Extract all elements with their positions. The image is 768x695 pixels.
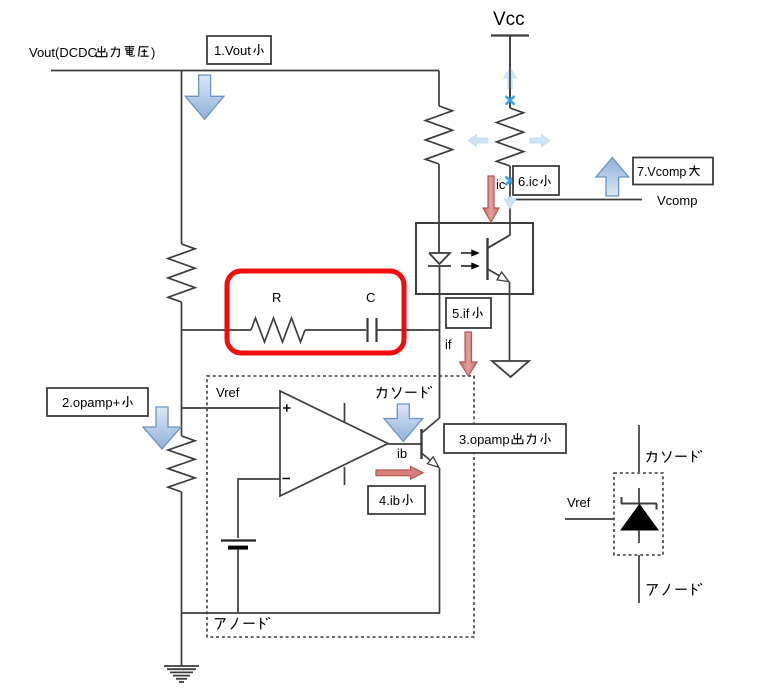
annotation box 6.ic小 <box>513 166 559 195</box>
annotation box 5.if小 <box>446 298 491 328</box>
blue arrow 1 (Vout down) <box>185 75 224 119</box>
TL431 anode inner lead <box>638 530 640 543</box>
svg-text:7.Vcomp: 7.Vcomp <box>637 165 686 179</box>
capacitor C (compensation) <box>368 318 377 342</box>
wire: emitter to ground <box>509 282 511 361</box>
svg-text:Vout(DCDC: Vout(DCDC <box>29 45 97 60</box>
TL431 reference bar <box>621 497 657 510</box>
ground (earth, hatched) <box>164 666 199 682</box>
red highlight rounded rect <box>227 271 404 353</box>
svg-text:Vref: Vref <box>216 385 240 400</box>
wire: anode lead below <box>638 555 640 603</box>
TL431 cathode inner lead <box>638 488 640 503</box>
red arrow if (down) <box>460 332 477 376</box>
wire: Q1 emitter down <box>439 468 441 613</box>
opto emitter arrowhead <box>497 272 509 282</box>
resistor R2 (divider lower) <box>168 436 195 492</box>
blue arrow 3 (cathode down) <box>384 404 423 442</box>
op-amp U1 <box>280 391 388 496</box>
svg-text:Vcc: Vcc <box>493 9 525 30</box>
wire: Vref to opamp + <box>182 407 281 409</box>
opto phototransistor <box>486 238 488 280</box>
wire: Vcomp rail <box>510 199 642 201</box>
svg-text:4.ib: 4.ib <box>379 493 400 508</box>
label anode right (アノード) <box>647 583 702 595</box>
resistor R3 (LED series) <box>426 106 453 164</box>
dashed box TL431 model <box>207 376 474 637</box>
wire: inverting input to battery <box>238 479 280 538</box>
svg-text:C: C <box>366 290 375 305</box>
label cathode right (カソード) <box>647 450 702 462</box>
label anode (アノード) in dashed box <box>215 617 270 629</box>
wire: Vcc down <box>509 36 511 109</box>
label cathode (カソード) <box>377 386 432 398</box>
svg-text:Vcomp: Vcomp <box>657 193 697 208</box>
wire: battery to anode rail <box>237 550 239 613</box>
dashed box TL431 symbol <box>614 473 663 555</box>
TL431 triangle (zener) <box>621 505 658 531</box>
svg-text:R: R <box>272 290 281 305</box>
opto light arrows <box>461 250 478 268</box>
wire: branch to opto LED (upper right resistor) <box>438 71 440 224</box>
svg-text:ib: ib <box>397 446 407 461</box>
annotation box 1.Vout小 <box>207 36 271 64</box>
wire: anode bottom rail <box>182 612 441 614</box>
label Vout(DCDC出力電圧) <box>29 45 155 60</box>
Q1 emitter arrowhead <box>427 457 438 468</box>
resistor R4 (collector pull-up) <box>497 108 524 166</box>
wire: opamp output to Q1 base <box>388 443 422 445</box>
svg-text:Vref: Vref <box>567 495 591 510</box>
wire: RC branch horizontal <box>182 329 440 331</box>
Vcc rail bar <box>491 34 529 36</box>
wire: re-stroke Vcc wire over move arrow <box>509 36 511 109</box>
svg-text:3.opamp: 3.opamp <box>459 432 510 447</box>
wire: cathode lead <box>638 425 640 472</box>
svg-text:): ) <box>151 45 155 60</box>
battery (Vref source) <box>221 541 256 550</box>
svg-text:2.opamp+: 2.opamp+ <box>62 395 120 410</box>
svg-text:if: if <box>445 337 452 352</box>
resistor R1 (divider upper) <box>168 244 195 302</box>
opamp minus sign <box>283 478 291 480</box>
svg-text:6.ic: 6.ic <box>518 174 539 189</box>
svg-text:5.if: 5.if <box>452 306 470 321</box>
wire: left main vertical (Vout divider) <box>181 71 183 614</box>
light blue move arrows around R4 <box>468 68 550 209</box>
opamp plus sign <box>283 404 291 412</box>
svg-text:ic: ic <box>496 177 506 192</box>
wire: top Vout rail <box>51 70 439 72</box>
annotation box 2.opamp+小 <box>47 388 148 416</box>
blue arrow 2 (opamp+ down) <box>143 407 181 449</box>
resistor R (compensation) <box>251 318 305 342</box>
annotation box 3.opamp出力小 <box>444 424 566 453</box>
ground (opto emitter) <box>492 361 529 377</box>
wire: Vref stub <box>565 518 614 520</box>
red arrow ic (down) <box>483 176 499 222</box>
light blue handle x marks <box>506 97 513 185</box>
annotation box 7.Vcomp大 <box>633 158 713 185</box>
red arrow ib (right) <box>376 466 423 479</box>
blue arrow 4 (Vcomp up) <box>596 158 629 197</box>
opto LED D1 <box>428 223 451 418</box>
wire: collector wire down to opto <box>488 166 510 248</box>
svg-text:1.Vout: 1.Vout <box>214 43 251 58</box>
annotation box 4.ib小 <box>368 486 425 514</box>
wire: to chassis ground <box>181 613 183 666</box>
transistor Q1 <box>420 429 422 459</box>
optocoupler U1 box <box>416 223 533 294</box>
